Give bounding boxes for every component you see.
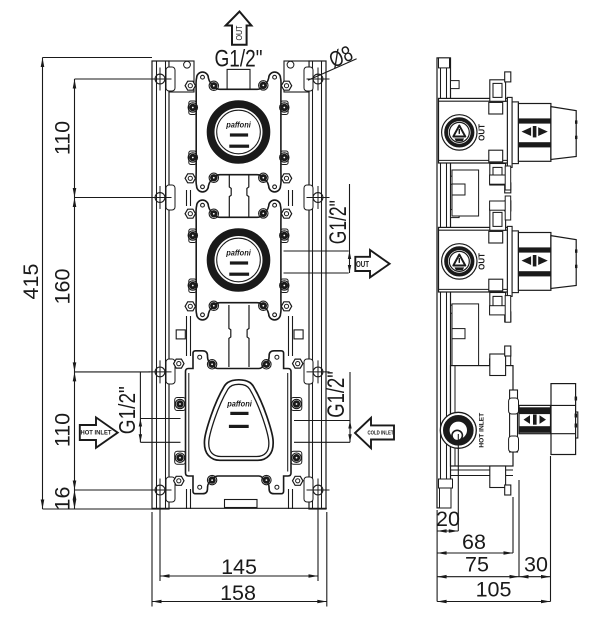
svg-text:HOT INLET: HOT INLET [478,413,485,448]
right rail [309,61,326,509]
hot inlet circle [440,412,476,448]
extension line wall face [436,510,438,602]
leader from hot inlet axis [457,434,459,531]
flange strip [510,390,518,452]
diameter 8 label and leader [308,40,357,80]
COLD INLET port dimension [294,372,350,442]
sub dimension line 110/160/110/16 [75,79,151,509]
svg-text:OUT: OUT [356,260,369,269]
extension line guard end [550,456,552,602]
145 dimension [160,497,318,581]
HOT INLET port dimension [140,372,180,442]
wall plate side [437,58,451,508]
svg-text:20: 20 [436,507,460,531]
bottom port below module 3 [225,500,258,508]
svg-text:G1/2": G1/2" [325,200,352,244]
mounting hole bottom-right [307,479,330,502]
module 3 corner hex nuts [174,359,184,368]
svg-text:G1/2": G1/2" [215,46,263,73]
side module 3 (thermostatic, bottom) [440,346,578,495]
top bracket [490,354,506,376]
module 3 side tabs [175,398,302,465]
side connector between module 1 and 2 [452,166,511,220]
striped plaster guard [519,405,551,433]
OUT arrow up [226,12,252,45]
OUT port dimension (module 2) [284,184,350,273]
svg-text:G1/2": G1/2" [114,386,140,434]
svg-text:30: 30 [524,553,548,577]
mounting hole mid-left [149,186,172,209]
mounting hole mid-right [307,186,330,209]
end block [551,384,578,455]
mounting hole top-right (diameter 8) [307,68,330,91]
svg-text:16: 16 [50,487,74,511]
top bracket right [284,61,309,92]
module 3 screws [207,360,216,369]
svg-text:OUT: OUT [235,25,244,40]
HOT INLET arrow right [80,417,118,447]
OUT arrow right [355,250,389,277]
svg-text:105: 105 [476,578,512,602]
side module 2 (middle) [439,201,578,322]
mounting hole top-left [149,68,172,91]
158 dimension [152,512,327,607]
side module 1 (top) [439,72,578,193]
side connector between module 2 and 3 [452,296,511,376]
left rail [152,61,169,509]
svg-text:160: 160 [50,269,74,305]
COLD INLET arrow left [355,418,394,448]
body [451,366,514,466]
channel edges in gaps [176,190,303,509]
thermostatic module 3 plate [174,351,303,494]
mounting hole lower-right [307,360,330,383]
415 dimension [43,58,153,510]
svg-text:158: 158 [220,581,256,605]
valve module 1 [185,72,292,192]
svg-text:75: 75 [465,553,489,577]
rail tabs at holes [166,67,313,502]
mounting hole lower-left [149,360,172,383]
svg-text:110: 110 [50,413,74,447]
svg-text:paffoni: paffoni [226,400,252,409]
G1/2 top port [227,69,250,89]
connector between module 1 and 2 [229,175,249,220]
svg-text:68: 68 [462,530,486,554]
svg-text:HOT INLET: HOT INLET [81,431,112,437]
valve module 2 [185,200,292,320]
extension line guard face [518,480,520,577]
module 3 plate outline [186,351,292,494]
dim line 68 [437,552,513,554]
top bracket left [169,61,194,92]
extension line body front [512,497,514,553]
connector between module 2 and 3 [229,305,249,367]
bottom bracket [490,466,506,488]
dim arrowheads [41,58,327,604]
svg-text:145: 145 [221,555,257,579]
dimension texts left [19,121,257,605]
svg-text:G1/2": G1/2" [323,371,350,418]
svg-text:COLD INLET: COLD INLET [368,430,394,436]
D-shaped cartridge outline [204,380,273,461]
dim line 105 [437,601,550,603]
dim line 20 [437,530,458,532]
dim line 75/30 [437,576,550,578]
svg-text:415: 415 [19,264,43,300]
svg-text:110: 110 [50,121,74,155]
channel bottom edge [152,507,327,509]
mounting hole bottom-left [149,479,172,502]
wall plate top/bottom step details [439,58,453,508]
